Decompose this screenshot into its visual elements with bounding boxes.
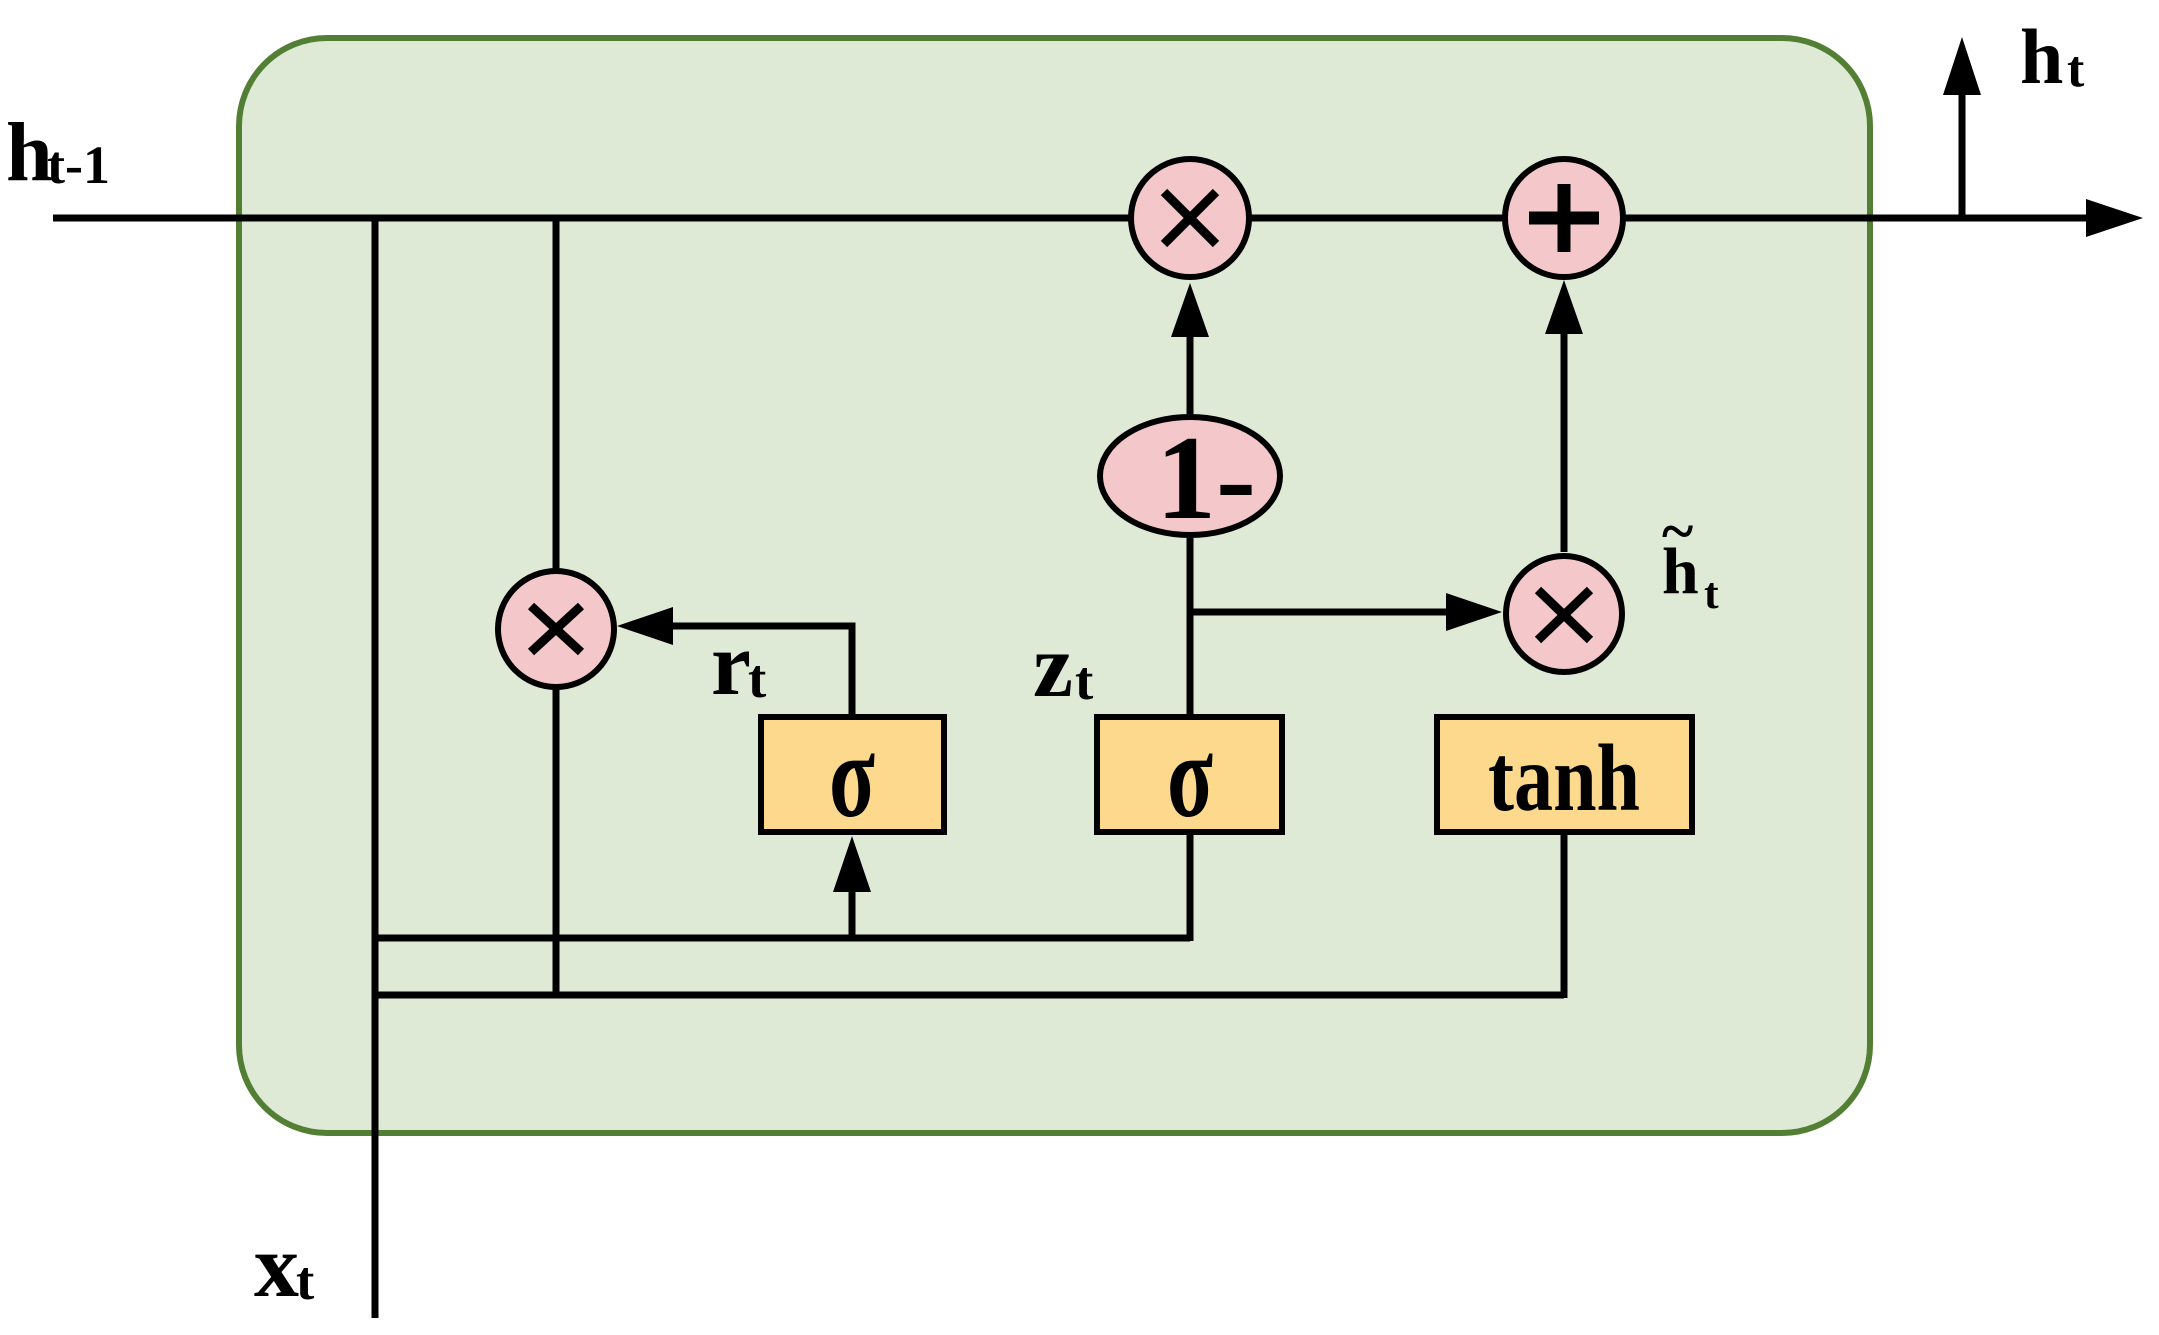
svg-text:t: t (1704, 569, 1719, 618)
svg-text:t: t (296, 1250, 315, 1311)
svg-text:~: ~ (1662, 498, 1693, 564)
svg-text:z: z (1033, 617, 1073, 716)
svg-text:t: t (748, 648, 767, 709)
svg-text:t-1: t-1 (47, 135, 110, 195)
svg-text:tanh: tanh (1488, 725, 1640, 831)
svg-text:h: h (2020, 13, 2063, 100)
svg-text:h: h (6, 106, 53, 199)
svg-text:t: t (1075, 650, 1094, 711)
svg-text:r: r (711, 615, 751, 714)
svg-text:σ: σ (1167, 709, 1213, 842)
svg-text:x: x (254, 1217, 299, 1316)
svg-text:t: t (2067, 41, 2085, 98)
svg-text:σ: σ (829, 709, 875, 842)
svg-text:1-: 1- (1156, 411, 1256, 544)
